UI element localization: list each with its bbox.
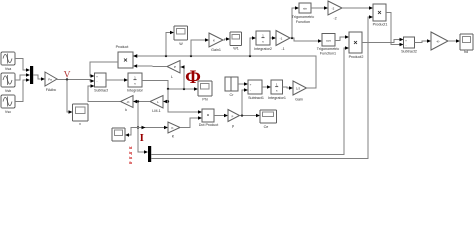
svg-text:W1: W1 xyxy=(233,47,239,51)
svg-text:Function: Function xyxy=(296,20,310,24)
wire subtract1 to integrator1 xyxy=(262,85,271,88)
svg-text:L: L xyxy=(171,75,173,79)
wire phi node to LM-1 input xyxy=(167,101,168,103)
wire theta to sin xyxy=(292,6,299,38)
source Vsa xyxy=(1,52,15,71)
source Vsb xyxy=(1,73,15,93)
wire gain L out to product in2 xyxy=(138,65,168,68)
product (mirrored) xyxy=(116,45,138,68)
wire -K feedback to subtract in3 xyxy=(88,84,120,101)
svg-text:cos: cos xyxy=(326,38,331,42)
svg-text:Trigonometric: Trigonometric xyxy=(292,15,315,19)
svg-text:P: P xyxy=(174,65,176,69)
wire w to scope W xyxy=(166,31,174,56)
subtract xyxy=(94,73,108,93)
block cos xyxy=(317,34,340,56)
wire product2 to subtract2 in1 xyxy=(362,38,404,43)
svg-text:Vsa: Vsa xyxy=(5,67,12,71)
scope Phi xyxy=(198,81,212,102)
node dot gain1 riser xyxy=(190,55,192,57)
svg-text:K: K xyxy=(213,39,215,43)
product2 xyxy=(349,32,364,59)
wire dot product to gain p xyxy=(214,114,228,117)
subtract2 xyxy=(401,37,417,54)
wire phi down to dot product in1 xyxy=(168,89,202,114)
scope I xyxy=(112,128,125,141)
integrator1 xyxy=(268,80,286,100)
svg-text:Gain1: Gain1 xyxy=(211,48,221,52)
svg-text:Trigonometric: Trigonometric xyxy=(317,47,340,51)
annotation Phi xyxy=(185,67,201,88)
svg-text:Ce: Ce xyxy=(264,125,269,129)
scope v xyxy=(73,104,89,126)
source Vsc xyxy=(1,95,15,114)
svg-text:-2: -2 xyxy=(333,17,336,21)
wire gain K to dot product in2 xyxy=(180,116,202,127)
dot product xyxy=(199,109,218,127)
node dot w scope riser xyxy=(165,55,167,57)
block Cr xyxy=(225,77,238,97)
wire I to scope I xyxy=(125,128,138,137)
svg-text:Integrator2: Integrator2 xyxy=(254,47,272,51)
wire Vsa to mux xyxy=(15,59,30,72)
node dot V xyxy=(66,78,68,80)
demux out1 to product2 in2 xyxy=(151,46,349,154)
svg-text:Vsb: Vsb xyxy=(5,89,11,93)
node dot phi line xyxy=(167,88,169,90)
svg-text:FAdbc: FAdbc xyxy=(46,88,57,92)
wire mux to FAdbc xyxy=(33,75,45,81)
wire WP-1 out to -k in (I node) xyxy=(137,101,150,103)
svg-text:v: v xyxy=(79,122,81,126)
svg-text:-: - xyxy=(97,80,98,84)
wire gain -2 to product1 xyxy=(342,6,373,9)
wire I to gain K xyxy=(138,126,168,129)
integrator xyxy=(127,73,144,93)
svg-text:Subtract1: Subtract1 xyxy=(248,96,264,100)
node dot I top xyxy=(137,100,139,102)
svg-text:+: + xyxy=(405,39,407,43)
svg-text:-K: -K xyxy=(127,100,130,104)
svg-text:-: - xyxy=(250,89,251,93)
wire w to gain1 xyxy=(191,38,209,56)
node dot phi riser xyxy=(183,88,185,90)
wire Vsc to mux xyxy=(15,78,30,101)
wire gain1 to scope W1 xyxy=(223,37,230,40)
wire sin to gain -2 xyxy=(311,6,328,9)
scope Ce xyxy=(260,110,277,129)
I node vertical wire xyxy=(138,102,148,154)
scope hd xyxy=(460,34,473,54)
scope W1 xyxy=(230,32,242,51)
wire gain p to scope Ce xyxy=(240,114,261,117)
node dot integrator2 riser xyxy=(249,55,251,57)
wire Vsb to mux xyxy=(15,73,30,80)
svg-text:Product: Product xyxy=(116,45,129,49)
svg-text:p: p xyxy=(232,124,234,128)
wire product out to subtract in1 xyxy=(90,62,118,78)
w bus wire xyxy=(133,54,316,88)
svg-text:1/J: 1/J xyxy=(296,87,301,91)
svg-text:-2: -2 xyxy=(332,7,335,11)
gain -k (left pointing) xyxy=(121,96,138,113)
svg-text:Product1: Product1 xyxy=(373,23,388,27)
wire integrator out / phi node xyxy=(142,81,198,91)
scope W xyxy=(174,26,188,46)
svg-text:Function1: Function1 xyxy=(320,52,336,56)
wire integrator2 to gain -1 xyxy=(270,36,276,39)
svg-text:Product2: Product2 xyxy=(349,55,364,59)
svg-text:+: + xyxy=(250,83,252,87)
demux out2 to product1 in2 xyxy=(151,15,373,158)
svg-text:LM-1: LM-1 xyxy=(152,109,160,113)
node dot theta xyxy=(291,37,293,39)
demux xyxy=(148,146,151,162)
node dot I mid xyxy=(137,126,139,128)
svg-text:-K-: -K- xyxy=(436,39,440,43)
wire w to integrator2 xyxy=(250,36,256,56)
gain -2 xyxy=(328,1,342,21)
node dot Ce xyxy=(241,114,243,116)
wire Cr to subtract1 xyxy=(238,82,248,85)
svg-text:Integrator: Integrator xyxy=(127,89,144,93)
svg-text:Phi: Phi xyxy=(202,98,208,102)
svg-text:-1: -1 xyxy=(281,47,284,51)
gain (2/3) xyxy=(431,32,448,50)
gain (1/J) xyxy=(293,81,307,102)
demux labels red xyxy=(129,146,133,165)
wire subtract to integrator xyxy=(106,78,128,81)
node dot phi to lm xyxy=(167,100,169,102)
block sin xyxy=(292,3,315,24)
subtract1 xyxy=(248,80,264,100)
wire gain to scope hd xyxy=(448,39,460,42)
gain LM-1 (left pointing) xyxy=(150,96,167,114)
node V wire xyxy=(57,79,95,82)
wire integrator1 to gain xyxy=(283,86,294,89)
integrator2 xyxy=(254,31,272,51)
gain p xyxy=(228,110,240,129)
mux xyxy=(30,66,33,84)
svg-text:-: - xyxy=(406,44,407,48)
svg-text:+: + xyxy=(96,75,98,79)
svg-text:Integrator1: Integrator1 xyxy=(268,96,286,100)
svg-text:Vsc: Vsc xyxy=(5,110,11,114)
svg-text:Dot Product: Dot Product xyxy=(199,123,218,127)
wire product1 to subtract2 in2 xyxy=(386,13,404,47)
gain L (left pointing) xyxy=(167,61,180,80)
wire cos to product2 in1 xyxy=(335,35,349,40)
svg-text:I: I xyxy=(140,132,144,144)
wire phi riser to gain L xyxy=(181,65,185,89)
gain -1 xyxy=(276,31,290,52)
wire V to scope v xyxy=(67,80,73,114)
wire Ce feedback to subtract1 xyxy=(242,88,248,115)
theta wire to cos xyxy=(290,38,322,43)
gain FAdbc xyxy=(45,72,57,92)
svg-text:k: k xyxy=(125,108,127,112)
svg-text:Subtract: Subtract xyxy=(94,89,108,93)
gain K xyxy=(168,122,180,139)
svg-text:K: K xyxy=(171,126,173,130)
svg-text:sin: sin xyxy=(303,6,307,10)
svg-text:Gain: Gain xyxy=(295,98,303,102)
svg-text:hd: hd xyxy=(464,50,468,54)
svg-text:-1: -1 xyxy=(280,37,283,41)
annotation I xyxy=(140,132,144,144)
product1 xyxy=(373,4,388,27)
svg-text:Subtract2: Subtract2 xyxy=(401,50,417,54)
svg-text:Fa: Fa xyxy=(48,78,52,82)
svg-text:W: W xyxy=(179,42,183,46)
annotation V xyxy=(64,71,71,81)
wire subtract2 to gain hd xyxy=(415,39,432,42)
gain Gain1 xyxy=(209,33,223,52)
